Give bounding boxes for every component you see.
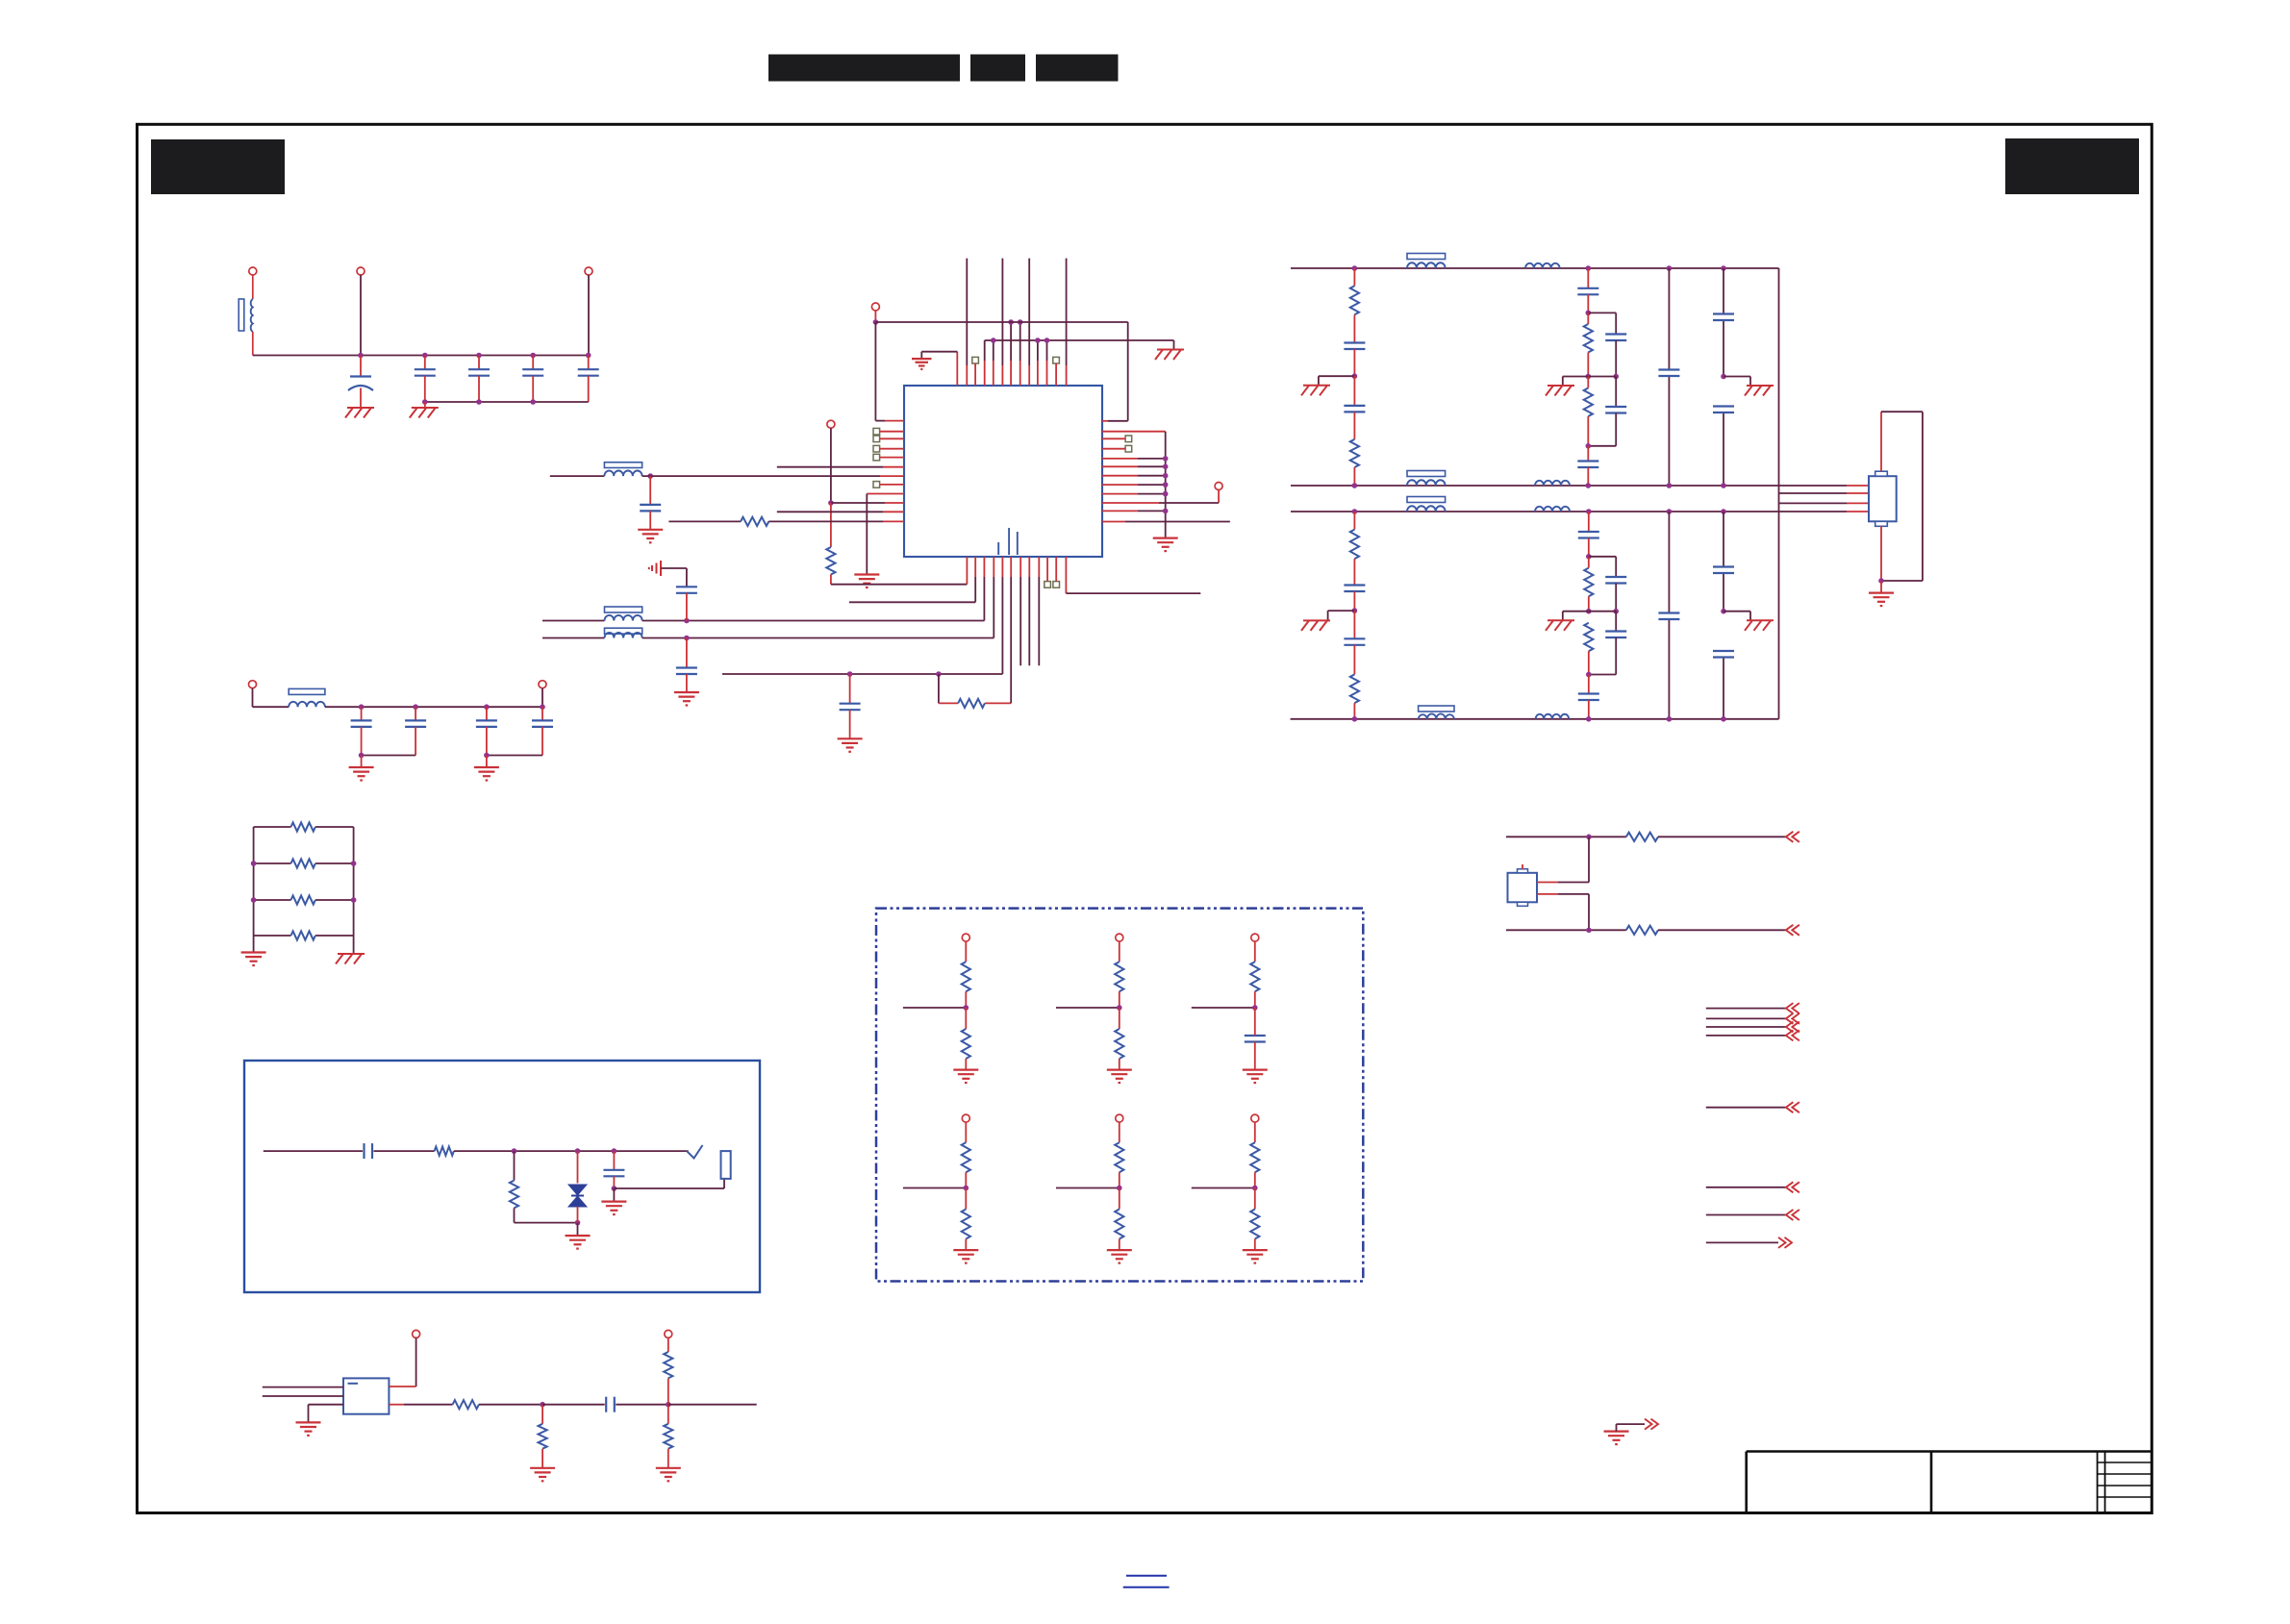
wire (1102, 493, 1166, 495)
junction (1586, 374, 1619, 380)
off-page connector (1778, 1237, 1792, 1248)
wire (541, 688, 543, 708)
resistor R19 (1115, 962, 1123, 991)
power pin P6 (871, 303, 879, 311)
ground (1155, 350, 1184, 361)
power pin P15 (413, 1330, 420, 1337)
wire (1880, 526, 1882, 581)
wire (1779, 492, 1870, 494)
wire (1880, 581, 1882, 593)
resistor R20 (1250, 962, 1259, 991)
wire (667, 1378, 669, 1404)
capacitor C11 (476, 720, 497, 727)
junction (1252, 1005, 1258, 1011)
ground (638, 530, 663, 543)
wire (1588, 700, 1590, 719)
resistor R9 (1350, 439, 1359, 467)
resistor R7 (958, 699, 985, 708)
capacitor C9 (351, 720, 372, 727)
pin square (972, 357, 979, 363)
wire (325, 706, 542, 708)
wire (1119, 1188, 1120, 1210)
wire (425, 401, 589, 403)
inductor L6 (1407, 262, 1446, 268)
ferrite bead FB1 (604, 462, 642, 468)
ground (1745, 386, 1774, 396)
junction (1586, 672, 1592, 678)
resistor R5 (826, 547, 835, 575)
wire (1254, 1239, 1256, 1251)
divider pin P14 (1251, 1114, 1259, 1122)
net wire L2 (1291, 485, 1869, 487)
connector J1 body (1869, 476, 1897, 521)
wire (1019, 557, 1021, 665)
wire (1102, 502, 1219, 504)
wire (361, 756, 363, 768)
net wire (1706, 1214, 1786, 1216)
ferrite bead FB5 (1407, 254, 1446, 260)
wire (1010, 557, 1012, 703)
wire (415, 727, 416, 756)
wire (389, 1386, 415, 1387)
wire (1102, 448, 1125, 450)
wire (1055, 363, 1057, 386)
wire (1588, 557, 1590, 612)
wire (880, 437, 904, 439)
wire (1881, 412, 1923, 581)
wire (1046, 340, 1048, 386)
wire (1353, 591, 1355, 611)
power pin P3 (585, 267, 592, 275)
inductor L7 (1525, 263, 1560, 268)
wire (1328, 611, 1355, 620)
wire (542, 637, 605, 639)
wire (1254, 1008, 1256, 1029)
capacitor C21 (1713, 314, 1734, 321)
wire (252, 275, 254, 299)
wire (983, 557, 985, 621)
wire (486, 756, 488, 768)
wire (1119, 1239, 1120, 1251)
wire (1065, 557, 1067, 593)
wire (1119, 991, 1120, 1008)
ground (912, 359, 932, 369)
ferrite bead FB3 (605, 628, 642, 634)
resistor R1 (291, 822, 315, 831)
resistor R15 (1584, 623, 1593, 652)
wire (254, 935, 354, 937)
junction (1117, 1186, 1122, 1191)
wire (1353, 349, 1355, 376)
wire (588, 356, 590, 370)
off-page connector (1786, 832, 1799, 842)
wire (486, 707, 488, 720)
resistor R17 (1626, 926, 1658, 935)
ground (1243, 1070, 1268, 1084)
wire (1615, 612, 1617, 632)
power pin P8 (1215, 483, 1222, 490)
capacitor C5 (578, 369, 599, 376)
junction (612, 1186, 617, 1191)
wire (1037, 340, 1039, 386)
junction (684, 618, 690, 624)
wire (1724, 612, 1750, 621)
wire (1119, 941, 1120, 962)
inductor L11 (1535, 507, 1570, 512)
net wire L1 (1291, 267, 1779, 269)
wire (577, 1207, 579, 1223)
pin square (873, 454, 880, 461)
net wire L3 (1291, 511, 1869, 512)
pin square (873, 445, 880, 452)
wire (667, 1337, 669, 1352)
wire (1055, 557, 1057, 582)
corner redaction box right (2005, 138, 2139, 194)
crystal Y1 tabs (1518, 869, 1528, 907)
inductor L12 (1419, 713, 1454, 718)
net wire (1056, 1007, 1120, 1009)
resistor R8 (1350, 286, 1359, 314)
wire (1587, 294, 1589, 312)
wire (389, 1404, 452, 1406)
junction (1586, 443, 1592, 449)
resistor R33 (539, 1424, 547, 1449)
net AGND bus (1165, 432, 1167, 538)
capacitor C23 (1344, 586, 1365, 592)
junction (1163, 509, 1169, 514)
wire (985, 702, 1011, 704)
junction (647, 473, 653, 479)
net wire (668, 520, 741, 522)
junction (964, 1005, 969, 1011)
wire (360, 275, 362, 356)
resistor R13 (1350, 674, 1359, 703)
ferrite bead FB4 (289, 688, 325, 694)
wire (515, 1208, 578, 1222)
junction (1721, 374, 1726, 380)
power pin P1 (249, 267, 257, 275)
wire (588, 376, 590, 402)
capacitor C13 (840, 704, 861, 711)
wire (880, 448, 904, 450)
wire (1723, 512, 1724, 719)
wire (1589, 557, 1616, 577)
wire (880, 457, 904, 459)
wire (956, 352, 958, 386)
capacitor C25 (1578, 532, 1599, 538)
junction (359, 753, 365, 759)
inductor L1 (239, 299, 253, 332)
wire (1102, 475, 1166, 477)
wire (353, 827, 355, 936)
wire (1038, 557, 1040, 665)
wire (1587, 446, 1589, 462)
inductor L8 (1407, 480, 1446, 486)
capacitor C34 (603, 1170, 624, 1177)
capacitor C15 (1344, 406, 1365, 412)
wire (642, 620, 985, 622)
divider pin P13 (1116, 1114, 1123, 1122)
wire (1658, 836, 1786, 837)
off-page connector (1786, 1030, 1799, 1040)
net wire (1778, 268, 1780, 719)
net wire (263, 1395, 343, 1397)
ground (953, 1070, 978, 1084)
ground (241, 953, 266, 966)
ground (296, 1422, 321, 1436)
ground (838, 738, 863, 752)
wire (252, 688, 254, 708)
net wire (1706, 1026, 1786, 1028)
junction (684, 636, 690, 641)
wire (830, 575, 832, 585)
power pin P7 (827, 420, 835, 428)
wire (532, 356, 534, 370)
wire (849, 674, 851, 704)
ground (854, 575, 879, 588)
pin square (1053, 357, 1060, 363)
off-page connector (1645, 1419, 1658, 1430)
junction (1352, 608, 1358, 613)
power pin P4 (249, 681, 257, 688)
title redaction box 1 (768, 55, 960, 82)
wire (361, 727, 363, 756)
wire (613, 1176, 615, 1188)
ground (474, 767, 499, 781)
net wire (1056, 1187, 1120, 1189)
resistor R11 (1584, 388, 1593, 417)
net wire (1192, 1007, 1255, 1009)
resistor R6 (741, 517, 768, 526)
wire (661, 568, 687, 587)
resistor R22 (1115, 1142, 1123, 1172)
junction (1352, 373, 1358, 379)
capacitor C24 (1344, 638, 1365, 645)
capacitor C26 (1605, 577, 1626, 584)
ferrite bead FB7 (1407, 497, 1446, 503)
wire (686, 674, 688, 692)
wire (1353, 376, 1355, 406)
ground (1301, 620, 1330, 631)
ground (1107, 1250, 1132, 1263)
junction (964, 1186, 969, 1191)
wire (1563, 377, 1589, 387)
ferrite bead FB2 (605, 607, 642, 612)
junction (1352, 265, 1726, 271)
power pin P16 (665, 1330, 672, 1337)
wire (1537, 837, 1589, 882)
wire (1102, 465, 1166, 467)
capacitor C4 (522, 369, 543, 376)
net wire L4 (1291, 718, 1779, 720)
resistor R3 (291, 895, 315, 904)
wire (830, 428, 832, 503)
wire (1102, 510, 1166, 512)
inductor L2 (604, 471, 642, 477)
wire (454, 1150, 689, 1152)
capacitor C32 (1245, 1036, 1266, 1042)
off-page connector (1786, 1182, 1799, 1192)
junction (1163, 473, 1169, 479)
wire (1588, 675, 1590, 694)
resistor R34 (664, 1352, 672, 1378)
ground (1745, 620, 1774, 631)
junction (540, 1402, 545, 1408)
capacitor C12 (532, 720, 553, 727)
junction (1586, 554, 1592, 560)
capacitor C27 (1605, 632, 1626, 638)
wire (1658, 929, 1786, 931)
junction (1163, 491, 1169, 497)
net wire (1192, 1187, 1255, 1189)
resistor R18 (962, 962, 970, 991)
wire (1587, 377, 1589, 446)
junction (1586, 609, 1619, 614)
power pin P2 (357, 267, 365, 275)
wire (1218, 490, 1220, 504)
net wire (1506, 836, 1626, 837)
capacitor C29 (1658, 613, 1679, 620)
microphone MK1 body (343, 1378, 389, 1413)
wire (1102, 437, 1125, 439)
off-page connector (1786, 1013, 1799, 1024)
wire (1173, 340, 1175, 349)
wire (1254, 1042, 1256, 1070)
ground (674, 692, 699, 706)
capacitor C28 (1578, 694, 1599, 701)
net wire (1706, 1008, 1786, 1010)
capacitor C22 (1713, 407, 1734, 413)
capacitor C10 (405, 720, 426, 727)
wire (1587, 312, 1589, 376)
wire (415, 707, 416, 720)
wire (362, 755, 416, 757)
wire (686, 638, 688, 668)
inductor L5 (289, 702, 325, 707)
junction (666, 1402, 671, 1408)
net wire (1706, 1107, 1786, 1109)
capacitor C1 (polarized) (348, 377, 373, 391)
junction (484, 753, 490, 759)
junction (1352, 509, 1726, 514)
wire (309, 1404, 344, 1406)
divider pin P12 (962, 1114, 969, 1122)
TVS diode D1 (568, 1185, 587, 1207)
wire (550, 475, 605, 477)
wire (1119, 1122, 1120, 1142)
wire (1001, 557, 1003, 674)
pin square (1044, 582, 1051, 588)
wire (1066, 259, 1068, 386)
wire (542, 620, 605, 622)
resistor R4 (291, 931, 315, 939)
wire (1668, 512, 1670, 719)
title redaction box 3 (1036, 55, 1119, 82)
wire (361, 707, 363, 720)
wire (479, 1404, 542, 1406)
wire (686, 593, 688, 621)
ground (1107, 1070, 1132, 1084)
audio jack J2 body (721, 1151, 731, 1179)
wire (667, 1405, 669, 1424)
wire (308, 1405, 310, 1423)
wire (374, 1150, 435, 1152)
ground (601, 1202, 626, 1215)
wire (667, 1449, 669, 1468)
wire (1588, 512, 1590, 532)
wire (1102, 458, 1166, 460)
wire (1588, 413, 1616, 446)
wire (1880, 412, 1882, 471)
title block (1747, 1452, 2152, 1513)
wire (1353, 645, 1355, 675)
ferrite bead FB6 (1407, 471, 1446, 477)
wire (965, 1122, 967, 1142)
net VIN wire (253, 355, 589, 357)
wire (613, 1188, 615, 1202)
ground (1546, 386, 1574, 396)
junction (991, 337, 1049, 343)
resistor R23 (1250, 1142, 1259, 1172)
junction (1352, 483, 1726, 488)
junction (1008, 319, 1022, 325)
wire (1563, 612, 1589, 621)
wire (1588, 312, 1616, 334)
wire (360, 356, 362, 377)
wire (415, 1337, 417, 1387)
resistor R12 (1350, 530, 1359, 560)
wire (253, 827, 255, 936)
junction (847, 671, 942, 677)
pin square (1053, 582, 1060, 588)
resistor R29 (1250, 1210, 1259, 1239)
wire (965, 941, 967, 962)
ground (1604, 1432, 1629, 1445)
wire (1254, 991, 1256, 1008)
wire (993, 340, 994, 386)
footer link underline 2 (1123, 1587, 1170, 1588)
resistor R27 (962, 1210, 970, 1239)
net wire (1706, 1187, 1786, 1188)
wire (542, 1404, 605, 1406)
junction (1117, 1005, 1122, 1011)
wire (831, 502, 904, 504)
wire (1588, 376, 1616, 378)
ground (1546, 620, 1574, 631)
inductor L9 (1535, 481, 1570, 486)
wire (541, 727, 543, 756)
wire (649, 476, 651, 505)
capacitor C33 (365, 1143, 373, 1159)
wire (1119, 1008, 1120, 1029)
ground (1869, 593, 1894, 607)
pin square (873, 436, 880, 442)
capacitor C31 (1713, 651, 1734, 658)
wire (965, 1059, 967, 1070)
wire (1615, 584, 1617, 612)
capacitor C2 (415, 369, 436, 376)
corner redaction box left (151, 139, 285, 194)
net VCC wire (875, 322, 1127, 421)
wire (254, 899, 354, 901)
wire (613, 1151, 615, 1170)
wire (965, 1172, 967, 1187)
wire (1254, 941, 1256, 962)
wire (880, 484, 904, 486)
ground (1243, 1250, 1268, 1263)
crystal Y1 body (1508, 873, 1538, 903)
capacitor C18 (1605, 407, 1626, 413)
